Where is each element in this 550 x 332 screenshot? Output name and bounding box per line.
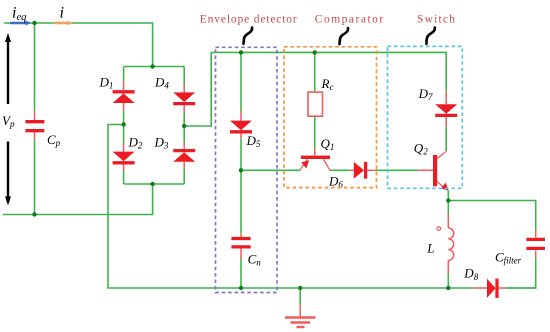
wire bridge right column — [183, 67, 185, 85]
wire DC minus from bridge left mid node down to bottom bus — [108, 125, 473, 289]
wire DC plus from bridge right mid node up to top rail — [184, 52, 211, 126]
wire bottom AC rail to bridge bottom — [3, 184, 153, 215]
wire bottom bus right of D8 — [506, 287, 536, 289]
wire Rc branch upper — [314, 52, 316, 92]
wire D5 branch upper — [240, 52, 242, 111]
arrow Vp top — [5, 33, 11, 104]
transistor Q2 — [418, 151, 448, 191]
svg-text:Comparator: Comparator — [315, 14, 385, 26]
wire Cn branch upper — [240, 170, 242, 233]
svg-text:Cn: Cn — [248, 252, 262, 268]
arrow i current — [54, 21, 73, 26]
svg-text:Envelope detector: Envelope detector — [200, 13, 298, 25]
capacitor Cfilter — [526, 230, 545, 258]
svg-text:D1: D1 — [99, 74, 114, 90]
wire bridge bottom rail — [124, 183, 185, 185]
svg-text:L: L — [426, 241, 434, 256]
svg-text:ieq: ieq — [12, 5, 26, 24]
wire D5 branch lower — [240, 139, 242, 171]
node L bottom — [446, 286, 450, 290]
box comparator — [284, 47, 377, 188]
svg-text:D3: D3 — [154, 135, 169, 151]
wire Rc to Q1 base — [314, 116, 316, 148]
diode D3 — [173, 143, 195, 169]
wire top AC rail from source to bridge top — [4, 23, 153, 67]
resistor Rc — [308, 92, 323, 116]
svg-text:Q2: Q2 — [414, 141, 428, 157]
svg-text:D4: D4 — [154, 74, 169, 90]
wire Cp branch upper — [34, 23, 36, 111]
wire Q2 emitter to output node — [447, 190, 449, 201]
wire Cp branch lower — [34, 140, 36, 215]
wire D7 to Q2 collector — [445, 127, 447, 151]
ground — [285, 304, 316, 327]
squiggle envelope detector — [244, 28, 253, 44]
node envelope output — [239, 168, 243, 172]
wire envelope output to Q1 emitter — [241, 169, 300, 171]
box envelope detector — [216, 47, 278, 292]
squiggle switch — [426, 28, 434, 44]
node source bottom junction — [32, 212, 36, 216]
wire bridge left column — [123, 67, 125, 82]
diode D8 — [473, 279, 506, 298]
wire Q1 collector to D6 — [330, 169, 350, 171]
diode D2 — [113, 143, 135, 171]
diode D5 — [230, 111, 252, 139]
svg-text:D6: D6 — [328, 174, 343, 190]
node bridge bottom — [150, 182, 154, 186]
node Rc top rail — [313, 50, 317, 54]
transistor Q1 — [300, 149, 330, 171]
svg-text:Vp: Vp — [2, 113, 15, 129]
node output — [446, 198, 450, 202]
diode D4 — [173, 85, 195, 113]
capacitor Cp — [25, 111, 44, 140]
node bridge left mid — [121, 122, 125, 126]
diode D1 — [113, 81, 135, 111]
wire D6 to Q2 base — [376, 169, 418, 171]
wire ground stub — [299, 288, 301, 304]
svg-text:Rc: Rc — [321, 76, 334, 92]
arrow Vp bottom — [5, 142, 11, 206]
box switch — [388, 46, 463, 188]
svg-text:Q1: Q1 — [321, 136, 335, 152]
svg-text:D7: D7 — [418, 86, 433, 102]
svg-text:Switch: Switch — [417, 13, 456, 25]
arrow ieq current — [10, 21, 32, 26]
diode D6 — [350, 162, 376, 179]
wire bridge top rail — [124, 66, 185, 68]
node bridge top — [150, 64, 154, 68]
node Cn bottom — [239, 286, 243, 290]
node ground bus — [298, 286, 302, 290]
wire C filter bottom to bus — [506, 258, 536, 288]
squiggle comparator — [340, 28, 349, 44]
svg-text:D2: D2 — [128, 135, 143, 151]
svg-text:Cfilter: Cfilter — [495, 250, 522, 266]
diode D7 — [435, 91, 457, 127]
wire L branch upper — [447, 201, 449, 215]
wire output node to C filter — [448, 201, 535, 230]
svg-text:D8: D8 — [463, 266, 478, 282]
node bridge right mid — [182, 124, 186, 128]
wire Cn branch lower — [240, 259, 242, 288]
svg-text:D5: D5 — [246, 133, 261, 149]
wire top DC rail to D7 — [211, 52, 446, 91]
wire L branch lower — [447, 274, 449, 288]
inductor L — [437, 214, 454, 273]
capacitor Cn — [231, 233, 250, 258]
node D5 top rail — [239, 50, 243, 54]
svg-text:i: i — [60, 5, 64, 22]
node A source top — [32, 21, 36, 25]
svg-text:Cp: Cp — [47, 132, 61, 148]
